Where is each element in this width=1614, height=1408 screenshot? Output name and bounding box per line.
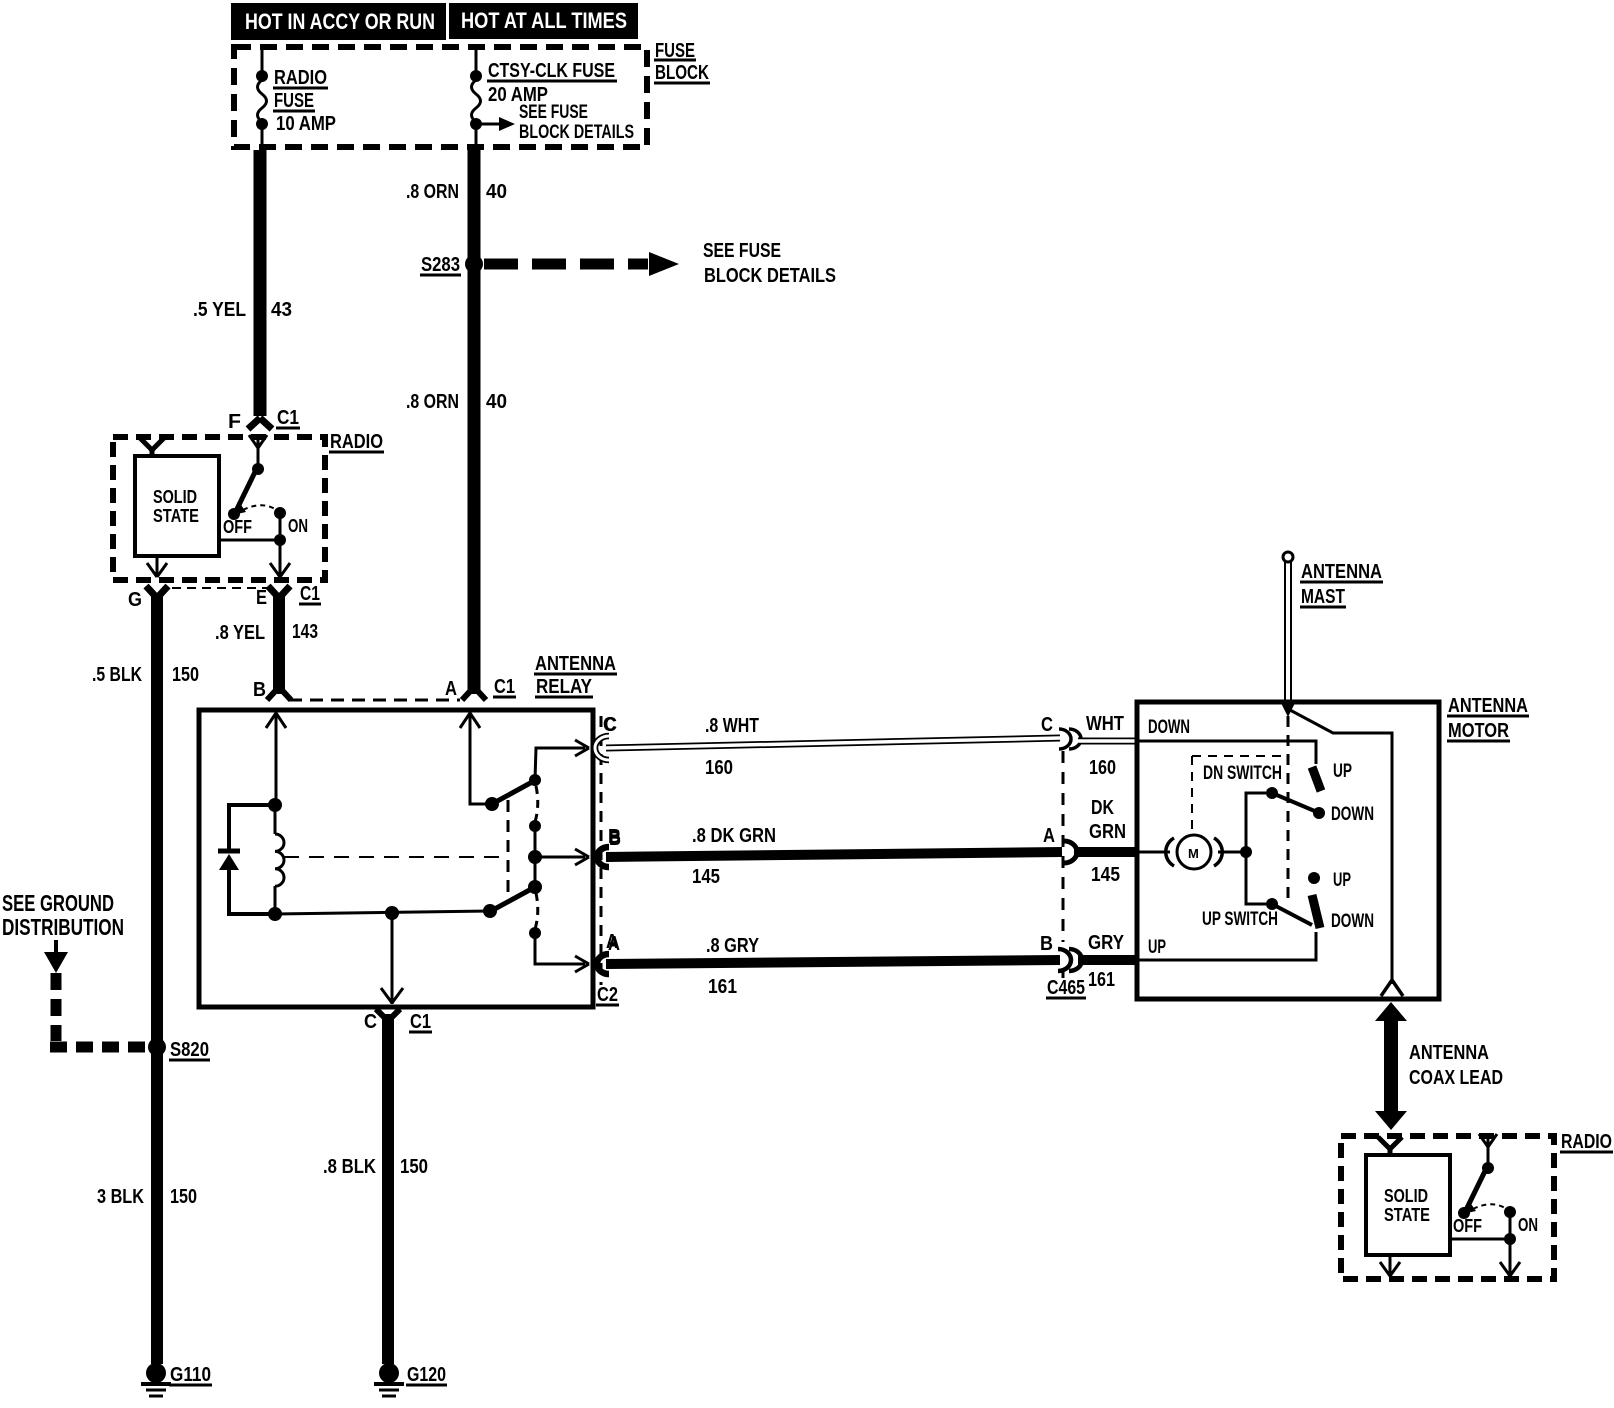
svg-text:MAST: MAST — [1301, 586, 1345, 608]
svg-text:143: 143 — [292, 621, 318, 643]
svg-text:C1: C1 — [410, 1011, 431, 1033]
svg-text:161: 161 — [1088, 969, 1115, 991]
label ANTENNA RELAY — [534, 653, 617, 698]
label DN SWITCH with linkage — [1192, 756, 1288, 830]
wire .8 GRY 161 — [606, 931, 1060, 998]
svg-text:UP SWITCH: UP SWITCH — [1202, 909, 1278, 930]
connector C465 pin B — [1040, 932, 1125, 991]
svg-text:43: 43 — [271, 299, 292, 321]
svg-text:.8 ORN: .8 ORN — [406, 181, 459, 203]
svg-text:BLOCK DETAILS: BLOCK DETAILS — [704, 265, 836, 287]
motor junction to switch pivots — [1240, 793, 1266, 904]
wire .8 ORN 40 from ctsy-clk fuse to S283 — [406, 150, 507, 264]
antenna motor box — [1137, 702, 1439, 999]
relay A feed wire — [460, 712, 486, 804]
svg-text:ANTENNA: ANTENNA — [1448, 695, 1528, 717]
header box HOT IN ACCY OR RUN — [231, 3, 446, 40]
relay output terminal A (gry connector) — [597, 954, 609, 974]
svg-text:.8 BLK: .8 BLK — [323, 1156, 376, 1178]
svg-text:COAX LEAD: COAX LEAD — [1409, 1067, 1503, 1089]
fuse RADIO FUSE 10 AMP — [256, 44, 336, 150]
radio dashed box (top left) — [113, 431, 384, 580]
svg-text:G120: G120 — [407, 1364, 446, 1386]
radio antenna input connector Y — [140, 438, 164, 457]
antenna coax lead arrow — [1375, 1002, 1503, 1130]
svg-text:SOLID: SOLID — [153, 487, 197, 507]
svg-text:160: 160 — [1089, 757, 1116, 779]
radio dashed box (bottom right) — [1341, 1131, 1613, 1279]
radio ground lead to G — [147, 556, 167, 577]
header box HOT AT ALL TIMES — [449, 3, 638, 39]
svg-text:RELAY: RELAY — [536, 676, 593, 698]
terminal C C1 below relay — [364, 1009, 432, 1033]
dashed arrow to fuse block details — [484, 240, 836, 287]
solid state box (radio2) — [1366, 1155, 1450, 1255]
splice S820 — [148, 1038, 210, 1061]
svg-text:F: F — [228, 411, 241, 433]
ground distribution pointer symbol — [44, 940, 68, 973]
svg-text:SEE GROUND: SEE GROUND — [2, 890, 114, 916]
svg-text:UP: UP — [1148, 937, 1166, 958]
svg-text:40: 40 — [486, 181, 507, 203]
wire DK GRN into motor — [1074, 847, 1137, 857]
relay output terminal C (white wire connector) — [595, 736, 609, 760]
dn switch arm and down contact — [1266, 787, 1374, 825]
radio2 antenna input connector Y — [1378, 1137, 1402, 1156]
relay armature dashed link — [284, 800, 508, 893]
svg-text:ANTENNA: ANTENNA — [535, 653, 616, 675]
svg-text:C: C — [364, 1011, 377, 1033]
svg-text:DOWN: DOWN — [1331, 911, 1374, 932]
svg-text:SEE FUSE: SEE FUSE — [703, 240, 781, 262]
radio2 ground lead — [1380, 1255, 1400, 1276]
terminal B of relay — [253, 679, 291, 701]
wire .8 BLK 150 to ground G120 — [323, 1014, 428, 1364]
fuse block dashed box — [234, 47, 647, 147]
mast mechanical dashed line — [1287, 716, 1290, 904]
relay common bus to switches — [275, 904, 497, 920]
svg-text:C: C — [1041, 714, 1053, 736]
svg-text:OFF: OFF — [1453, 1216, 1482, 1236]
svg-text:3 BLK: 3 BLK — [97, 1186, 144, 1208]
svg-text:C465: C465 — [1047, 977, 1085, 999]
antenna mast — [1281, 552, 1295, 717]
svg-text:WHT: WHT — [1086, 713, 1124, 735]
up switch arm and down contact — [1266, 895, 1374, 932]
svg-text:STATE: STATE — [153, 506, 199, 526]
coax lead inside motor — [1290, 710, 1403, 996]
svg-text:BLOCK: BLOCK — [655, 62, 709, 84]
terminal E C1 of radio — [256, 583, 321, 609]
svg-text:A: A — [606, 931, 618, 953]
dn switch up contact — [1312, 761, 1352, 791]
see ground distribution note — [2, 890, 124, 940]
svg-text:OFF: OFF — [223, 517, 252, 537]
connector C465 pin A — [1043, 797, 1126, 886]
relay clamp diode — [218, 805, 275, 914]
relay pin labels C B A C2 — [596, 714, 621, 1006]
svg-text:10 AMP: 10 AMP — [276, 113, 336, 135]
arrow see fuse block details (inside fuse block) — [476, 102, 634, 143]
relay upper switch (to C) — [485, 740, 589, 811]
label FUSE BLOCK — [654, 40, 710, 84]
wire .5 BLK 150 from radio G — [92, 596, 199, 1364]
svg-text:RADIO: RADIO — [330, 431, 383, 453]
solid state box (radio) — [135, 456, 219, 556]
svg-text:MOTOR: MOTOR — [1448, 720, 1509, 742]
svg-text:40: 40 — [486, 391, 507, 413]
svg-text:150: 150 — [172, 664, 199, 686]
svg-text:HOT AT ALL TIMES: HOT AT ALL TIMES — [461, 8, 627, 33]
svg-text:BLOCK DETAILS: BLOCK DETAILS — [519, 122, 634, 143]
label ANTENNA MOTOR — [1447, 695, 1529, 742]
svg-text:145: 145 — [692, 866, 720, 888]
svg-text:A: A — [1043, 825, 1055, 847]
ground G120 — [374, 1363, 447, 1396]
svg-text:DK: DK — [1091, 797, 1114, 819]
svg-text:.8 DK GRN: .8 DK GRN — [692, 825, 776, 847]
svg-text:.8 GRY: .8 GRY — [706, 935, 760, 957]
svg-text:UP: UP — [1333, 870, 1351, 891]
svg-text:ANTENNA: ANTENNA — [1301, 561, 1382, 583]
svg-text:SEE FUSE: SEE FUSE — [519, 102, 588, 123]
svg-text:ON: ON — [1518, 1215, 1538, 1235]
relay center contact to B — [528, 786, 589, 865]
motor UP feed (gry) — [1137, 932, 1316, 960]
svg-text:C1: C1 — [277, 407, 299, 429]
svg-text:UP: UP — [1333, 761, 1352, 782]
svg-text:C2: C2 — [597, 984, 618, 1006]
relay coil — [268, 798, 284, 921]
relay lower switch (to A) — [491, 857, 589, 972]
svg-text:DN SWITCH: DN SWITCH — [1203, 763, 1282, 784]
svg-text:B: B — [608, 826, 621, 848]
svg-text:.5 YEL: .5 YEL — [193, 299, 246, 321]
up switch up contact — [1308, 870, 1351, 891]
svg-text:.5 BLK: .5 BLK — [92, 664, 142, 686]
svg-text:RADIO: RADIO — [1561, 1131, 1612, 1153]
wire .8 YEL 143 from radio E to relay B — [215, 596, 318, 694]
terminal A C1 of relay — [445, 676, 516, 700]
svg-text:M: M — [1188, 846, 1199, 861]
svg-text:150: 150 — [400, 1156, 428, 1178]
svg-text:DOWN: DOWN — [1148, 717, 1190, 738]
radio on/off switch — [219, 435, 308, 577]
svg-text:.8 WHT: .8 WHT — [705, 715, 759, 737]
svg-text:161: 161 — [708, 976, 737, 998]
motor DOWN feed (wht) — [1137, 717, 1316, 764]
svg-text:.8 ORN: .8 ORN — [406, 391, 459, 413]
motor M — [1137, 835, 1246, 869]
svg-text:B: B — [253, 679, 266, 701]
svg-text:CTSY-CLK FUSE: CTSY-CLK FUSE — [488, 60, 615, 82]
svg-text:145: 145 — [1091, 864, 1120, 886]
fuse CTSY-CLK FUSE 20 AMP — [470, 44, 617, 150]
wire GRY into motor — [1078, 955, 1137, 965]
svg-text:150: 150 — [170, 1186, 197, 1208]
wire .8 DK GRN 145 — [606, 825, 1062, 888]
svg-text:GRN: GRN — [1089, 821, 1126, 843]
wire WHT into motor — [1078, 738, 1137, 745]
svg-text:SOLID: SOLID — [1384, 1186, 1428, 1206]
svg-text:E: E — [256, 587, 267, 609]
svg-text:DISTRIBUTION: DISTRIBUTION — [2, 914, 124, 940]
wire .8 WHT 160 — [603, 714, 1060, 779]
antenna relay box — [199, 710, 593, 1007]
svg-text:G110: G110 — [170, 1364, 211, 1386]
svg-text:B: B — [1040, 933, 1053, 955]
connector C1 dashed line at relay top — [289, 699, 460, 702]
terminal G of radio — [128, 586, 168, 611]
svg-text:GRY: GRY — [1088, 932, 1125, 954]
svg-text:C: C — [603, 714, 616, 736]
svg-text:FUSE: FUSE — [274, 90, 314, 112]
svg-text:ANTENNA: ANTENNA — [1409, 1042, 1489, 1064]
svg-text:160: 160 — [705, 757, 733, 779]
svg-text:G: G — [128, 589, 142, 611]
svg-text:DOWN: DOWN — [1331, 804, 1374, 825]
svg-text:S283: S283 — [421, 254, 460, 276]
svg-text:A: A — [445, 678, 457, 700]
svg-text:C1: C1 — [494, 676, 515, 698]
label ANTENNA MAST — [1300, 561, 1383, 608]
svg-text:ON: ON — [288, 516, 308, 536]
connector C1 dashed line under radio — [172, 587, 267, 589]
wire .8 ORN 40 from S283 to relay A — [406, 264, 507, 694]
wire .5 YEL 43 from radio fuse to radio F — [193, 150, 292, 416]
connector C465 pin C — [1041, 713, 1124, 779]
svg-text:STATE: STATE — [1384, 1205, 1430, 1225]
svg-text:S820: S820 — [170, 1039, 209, 1061]
radio2 on/off switch — [1450, 1134, 1538, 1276]
svg-text:RADIO: RADIO — [274, 67, 327, 89]
connector C465 dashed line and label — [1046, 751, 1086, 999]
dashed lead to splice S820 — [50, 973, 148, 1047]
svg-text:HOT IN ACCY OR RUN: HOT IN ACCY OR RUN — [245, 9, 435, 34]
svg-text:C1: C1 — [300, 583, 320, 605]
relay B feed wire — [266, 712, 286, 803]
splice S283 — [420, 254, 483, 276]
relay output to C terminal below — [381, 913, 403, 1004]
terminal F C1 of radio — [228, 407, 300, 433]
connector C2 dashed line — [600, 716, 603, 985]
relay output terminal B (dk grn connector) — [597, 847, 609, 867]
ground G110 — [141, 1363, 212, 1396]
svg-text:.8 YEL: .8 YEL — [215, 622, 265, 644]
